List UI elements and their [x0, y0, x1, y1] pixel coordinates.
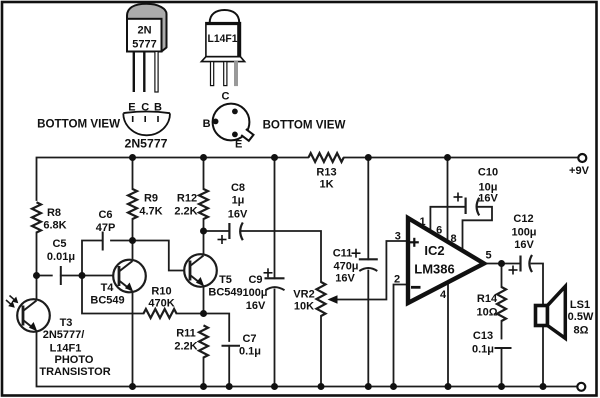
svg-text:R9: R9	[144, 193, 158, 205]
resistor R8	[32, 202, 41, 232]
svg-text:R8: R8	[47, 207, 61, 219]
svg-text:C7: C7	[242, 333, 256, 345]
capacitor C9 electrolytic vertical	[264, 268, 285, 290]
capacitor C13	[495, 347, 512, 349]
node dots	[33, 154, 547, 390]
L14F1 package drawing	[201, 10, 244, 86]
svg-text:47P: 47P	[96, 222, 116, 234]
wire: R11 bottom to ground	[203, 358, 205, 387]
svg-text:3: 3	[395, 231, 401, 243]
wire: C11 column from rail	[367, 158, 369, 260]
capacitor C12 electrolytic	[509, 255, 533, 275]
wire: VR2 wiper to pin 3	[334, 241, 407, 300]
wire: C9 bottom to ground	[274, 290, 276, 387]
wire: R14 bottom to C13	[501, 321, 503, 339]
svg-text:6.8K: 6.8K	[43, 220, 66, 232]
wire: R12 column top	[203, 158, 205, 190]
svg-text:470μ: 470μ	[333, 261, 358, 273]
wire: C5 left lead	[37, 275, 52, 277]
svg-text:C8: C8	[231, 182, 245, 194]
svg-text:0.01μ: 0.01μ	[47, 251, 75, 263]
wire: node to T3 collector	[36, 276, 38, 301]
svg-text:BC549: BC549	[208, 287, 242, 299]
capacitor C11 electrolytic vertical	[352, 249, 378, 271]
svg-text:R11: R11	[176, 328, 196, 340]
wire: output node down to R14	[501, 264, 503, 288]
svg-text:16V: 16V	[228, 209, 248, 221]
svg-text:PHOTO: PHOTO	[55, 354, 94, 366]
svg-text:2.2K: 2.2K	[174, 341, 197, 353]
pin number labels	[394, 216, 492, 301]
wire: C5 right lead	[61, 275, 82, 277]
wire: C12 to speaker	[532, 264, 544, 306]
wire: pin 5 output	[486, 263, 502, 265]
svg-text:T3: T3	[60, 317, 73, 329]
svg-text:C10: C10	[478, 167, 498, 179]
wire: C8 left lead	[204, 230, 230, 232]
svg-text:R13: R13	[316, 167, 336, 179]
svg-text:BOTTOM VIEW: BOTTOM VIEW	[37, 118, 120, 131]
svg-text:LM386: LM386	[414, 262, 454, 277]
wire: C13 bottom to ground	[501, 348, 503, 387]
svg-text:1K: 1K	[319, 179, 333, 191]
wire: R8 bottom to node	[36, 233, 38, 276]
svg-text:2N5777/: 2N5777/	[43, 329, 85, 341]
transistor T4	[113, 260, 146, 293]
svg-text:B: B	[154, 102, 162, 114]
wire: R12 bottom to C8 node to T5 collector	[203, 219, 205, 255]
svg-text:5777: 5777	[132, 39, 156, 51]
potentiometer VR2 wiper arrow	[328, 295, 338, 304]
svg-text:1: 1	[420, 216, 426, 228]
wire: R9 bottom to T4 collector node	[132, 219, 134, 260]
svg-text:C12: C12	[513, 213, 533, 225]
svg-text:16V: 16V	[478, 193, 498, 205]
wire: C7 jog from T5 emitter node	[204, 314, 230, 342]
wire: R9 column top	[132, 158, 134, 190]
svg-text:5: 5	[485, 250, 491, 262]
svg-text:C13: C13	[473, 330, 493, 342]
resistor R13	[309, 153, 344, 162]
wire: T4 emitter to ground	[132, 292, 134, 387]
wire: +9V top rail left section	[37, 158, 309, 201]
svg-text:E: E	[235, 139, 242, 151]
capacitor C7	[222, 345, 241, 347]
value labels	[39, 165, 594, 378]
wire: pin 4 to ground	[447, 283, 449, 387]
wire: C6 right to T4 collector node	[111, 240, 133, 242]
svg-text:IC2: IC2	[424, 243, 444, 258]
svg-text:10K: 10K	[294, 301, 314, 313]
L14F1 bottom view	[203, 91, 254, 151]
transistor T5	[184, 254, 217, 287]
svg-text:R12: R12	[177, 193, 197, 205]
svg-text:BC549: BC549	[90, 295, 124, 307]
capacitor C5	[60, 266, 62, 285]
wire: VR2 bottom to ground	[320, 316, 322, 387]
wire: R10 right to T5 emitter node	[177, 313, 204, 315]
svg-text:2N5777: 2N5777	[125, 138, 168, 151]
svg-text:C5: C5	[52, 238, 66, 250]
svg-text:TRANSISTOR: TRANSISTOR	[39, 366, 110, 378]
resistor R12	[199, 189, 208, 219]
potentiometer VR2 track	[317, 282, 326, 316]
svg-text:6: 6	[436, 225, 442, 237]
svg-text:+9V: +9V	[569, 165, 590, 177]
resistor R9	[128, 189, 137, 219]
svg-text:0.1μ: 0.1μ	[472, 344, 494, 356]
svg-text:10Ω: 10Ω	[476, 307, 497, 319]
svg-text:8: 8	[451, 233, 457, 245]
svg-text:2.2K: 2.2K	[174, 206, 197, 218]
wire: ground bottom rail	[37, 332, 578, 387]
wire: C8 to VR2 top	[241, 231, 322, 282]
svg-text:100μ: 100μ	[511, 227, 536, 239]
svg-text:C9: C9	[248, 274, 262, 286]
svg-text:B: B	[203, 118, 211, 130]
svg-text:16V: 16V	[335, 273, 355, 285]
svg-text:C11: C11	[333, 248, 353, 260]
wire: T4 base lead	[82, 275, 119, 277]
svg-text:0.5W: 0.5W	[568, 311, 594, 323]
svg-text:16V: 16V	[514, 239, 534, 251]
svg-text:L14F1: L14F1	[208, 33, 238, 45]
capacitor C8 electrolytic	[218, 223, 243, 245]
resistor R14	[497, 287, 506, 321]
svg-text:2N: 2N	[137, 25, 151, 37]
svg-text:BOTTOM VIEW: BOTTOM VIEW	[263, 119, 346, 132]
wire: pin 2 to ground	[394, 285, 408, 387]
capacitor C10 electrolytic	[454, 193, 480, 216]
svg-text:470K: 470K	[148, 298, 174, 310]
wire: C11 bottom to ground	[367, 271, 369, 387]
wire: pin 6 supply column	[447, 158, 449, 242]
svg-text:C: C	[222, 91, 230, 103]
wire: C6 left riser	[82, 241, 102, 276]
wire: output node to C12	[502, 263, 521, 265]
svg-text:T4: T4	[101, 282, 115, 294]
wire: C10 right to pin 8	[463, 207, 493, 251]
svg-text:R10: R10	[151, 286, 171, 298]
wire: speaker bottom to ground	[542, 326, 544, 387]
wire: T5 emitter to node	[203, 286, 205, 314]
svg-text:L14F1: L14F1	[50, 343, 82, 355]
light arrows into T3	[6, 296, 18, 308]
svg-text:8Ω: 8Ω	[574, 325, 589, 337]
svg-text:100μ: 100μ	[242, 287, 267, 299]
svg-text:4: 4	[440, 289, 447, 301]
transistor T3 phototransistor	[17, 299, 50, 332]
wire: node down to R10 left	[82, 276, 144, 314]
svg-text:R14: R14	[477, 293, 498, 305]
speaker LS1	[536, 286, 566, 338]
svg-text:C: C	[141, 102, 149, 114]
svg-text:T5: T5	[219, 274, 232, 286]
resistor R10	[144, 309, 177, 318]
wire: C7 bottom to ground	[228, 346, 230, 387]
svg-text:C6: C6	[98, 209, 112, 221]
wire: pin 1 riser to C10	[430, 207, 465, 232]
2N5777 bottom view	[123, 102, 170, 151]
svg-text:VR2: VR2	[293, 289, 314, 301]
wire: C9 column from rail	[274, 158, 276, 279]
0V terminal	[577, 383, 585, 391]
svg-text:0.1μ: 0.1μ	[239, 346, 261, 358]
wire: +9V top rail right section	[344, 157, 578, 159]
resistor R11	[199, 325, 208, 357]
svg-text:2: 2	[394, 274, 400, 286]
svg-text:E: E	[128, 102, 135, 114]
capacitor C6	[102, 232, 104, 251]
wire: T4 collector node to T5 base	[133, 241, 191, 271]
svg-text:4.7K: 4.7K	[139, 206, 162, 218]
+9V terminal	[578, 154, 586, 162]
svg-text:1μ: 1μ	[232, 195, 245, 207]
2N5777 package drawing	[127, 4, 167, 92]
svg-text:LS1: LS1	[570, 299, 590, 311]
svg-text:16V: 16V	[246, 300, 266, 312]
op-amp IC2 LM386 triangle	[408, 218, 484, 303]
